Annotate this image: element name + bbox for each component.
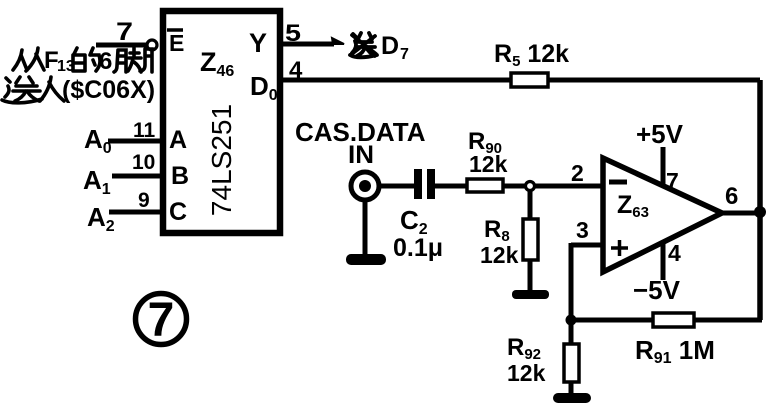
svg-text:7: 7: [148, 294, 175, 347]
resistor R92: [564, 344, 579, 382]
label R92 12k: [507, 334, 546, 386]
ground (R92): [553, 393, 591, 403]
svg-text:A: A: [169, 126, 187, 154]
node junction at R8: [526, 182, 535, 191]
svg-text:E: E: [169, 30, 184, 56]
wire A1 to pin B: [112, 174, 165, 179]
wire junction to R92: [569, 320, 574, 345]
svg-text:6: 6: [99, 48, 112, 75]
label Z46 (IC designator): [200, 47, 234, 80]
pin Y: [249, 28, 267, 58]
svg-text:12k: 12k: [507, 360, 546, 386]
op-amp plus input mark: [611, 240, 628, 256]
hanzi 入: [40, 77, 64, 101]
wire connector to C2: [380, 184, 415, 189]
hanzi 的: [73, 48, 100, 71]
resistor R91: [653, 313, 694, 327]
junction dot output: [754, 206, 766, 218]
wire Y output pin 5 with arrow: [279, 38, 344, 44]
svg-text:D: D: [381, 32, 399, 60]
wire R92 to ground: [569, 382, 574, 396]
resistor R5: [511, 73, 548, 87]
op-amp U2 Z63: [603, 158, 722, 272]
label R90 12k: [468, 128, 508, 177]
pin 3 label: [576, 217, 589, 243]
svg-text:R5 12k: R5 12k: [494, 40, 569, 70]
wire R90 to node: [503, 184, 526, 189]
svg-text:7: 7: [400, 46, 409, 63]
wire pin 4 to -5V: [661, 243, 666, 280]
label A2: [87, 202, 115, 235]
figure number 7: [136, 294, 187, 348]
ground (R8): [512, 290, 549, 299]
label -5V: [633, 275, 681, 305]
hanzi 送: [2, 77, 42, 103]
label R8 12k: [480, 216, 519, 268]
pin B: [171, 162, 189, 190]
label A1: [83, 165, 111, 198]
capacitor C2: [414, 169, 435, 199]
pin 4 label: [289, 57, 303, 84]
pin C: [169, 198, 187, 226]
pin number 10: [132, 151, 155, 174]
junction dot pin3/R92: [566, 315, 577, 326]
wire A2 to pin C: [109, 210, 165, 215]
svg-text:74LS251: 74LS251: [206, 104, 237, 216]
svg-text:0.1μ: 0.1μ: [393, 234, 443, 262]
pin number 9: [138, 189, 150, 212]
op-amp minus input mark: [609, 180, 627, 185]
svg-text:7: 7: [666, 168, 679, 194]
svg-text:3: 3: [576, 217, 589, 243]
svg-text:11: 11: [133, 119, 156, 142]
wire connector to ground: [363, 200, 368, 256]
pin number 11: [133, 119, 156, 142]
svg-text:R91 1M: R91 1M: [635, 335, 715, 367]
svg-text:Y: Y: [249, 28, 267, 58]
pin 5 label: [285, 20, 301, 47]
wire R8 to ground: [528, 260, 533, 292]
resistor R8: [523, 219, 538, 260]
pin 6 label: [725, 183, 738, 210]
label Z63: [617, 191, 649, 221]
svg-text:12k: 12k: [469, 151, 508, 177]
label CAS DATA IN: [295, 117, 426, 169]
label 74LS251 (rotated): [206, 104, 237, 216]
wire C2 to R90: [435, 184, 467, 189]
wire pin 3 elbow: [571, 243, 603, 320]
note line 2: 送入($C06X): [2, 76, 155, 104]
ground (connector): [346, 254, 386, 265]
pin A: [169, 126, 187, 154]
svg-text:12k: 12k: [480, 242, 519, 268]
wire +5V to pin 7: [661, 147, 666, 186]
wire node to op-amp pin 2: [534, 184, 602, 189]
svg-text:IN: IN: [348, 141, 374, 169]
label C2 0.1u: [393, 205, 443, 262]
label A0: [84, 124, 112, 157]
svg-text:2: 2: [571, 160, 584, 186]
pin 2 label: [571, 160, 584, 186]
wire op-amp output pin 6: [722, 211, 760, 216]
label +5V: [636, 119, 684, 149]
wire pin 7 to E: [96, 43, 147, 48]
svg-text:−5V: −5V: [633, 275, 681, 305]
label R5 12k: [494, 40, 569, 70]
pin 7 label: [116, 18, 133, 46]
wire feedback line: [571, 318, 762, 323]
svg-text:9: 9: [138, 189, 150, 212]
wire right bus vertical: [757, 80, 763, 320]
pin 7 label (op-amp): [666, 168, 679, 194]
wire D0 pin 4 to right bus: [279, 78, 760, 83]
resistor R90: [467, 179, 503, 192]
label 送D7 (送 smudged): [350, 32, 409, 63]
svg-text:C: C: [169, 198, 187, 226]
pin D0: [250, 71, 278, 104]
svg-text:7: 7: [116, 18, 133, 46]
pin 4 label (op-amp): [668, 240, 681, 266]
hanzi 从: [13, 48, 44, 71]
svg-text:($C06X): ($C06X): [62, 76, 155, 104]
pin E (enable, active low): [167, 30, 184, 56]
wire A0 to pin A: [108, 139, 165, 144]
wire node to R8: [528, 190, 533, 219]
svg-text:B: B: [171, 162, 189, 190]
hanzi 脚: [114, 48, 152, 72]
svg-text:6: 6: [725, 183, 738, 210]
IC U1 74LS251 body: [163, 11, 280, 233]
note line 1: 从F13的6脚: [13, 47, 152, 75]
svg-text:10: 10: [132, 151, 155, 174]
label R91 1M: [635, 335, 715, 367]
connector J1 CAS DATA IN: [351, 172, 379, 200]
svg-text:+5V: +5V: [636, 119, 684, 149]
inverter bubble on E input: [147, 40, 157, 50]
svg-text:4: 4: [668, 240, 681, 266]
